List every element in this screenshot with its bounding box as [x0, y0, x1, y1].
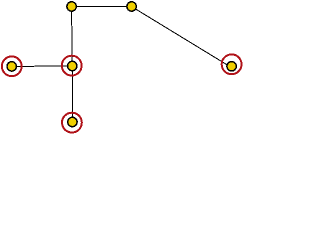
- wire B-C: [132, 7, 230, 67]
- ring F: [62, 113, 82, 133]
- node A: [67, 2, 76, 11]
- ring D: [62, 56, 82, 76]
- node C: [227, 62, 236, 71]
- node F: [68, 117, 77, 126]
- wire A-D: [71, 7, 74, 67]
- wire A-B: [72, 6, 132, 8]
- ring E: [2, 56, 22, 76]
- node B: [127, 2, 136, 11]
- ring C: [222, 54, 242, 74]
- wire D-F: [71, 66, 73, 122]
- node D: [68, 61, 77, 70]
- wire D-E: [12, 65, 73, 67]
- node E: [7, 62, 16, 71]
